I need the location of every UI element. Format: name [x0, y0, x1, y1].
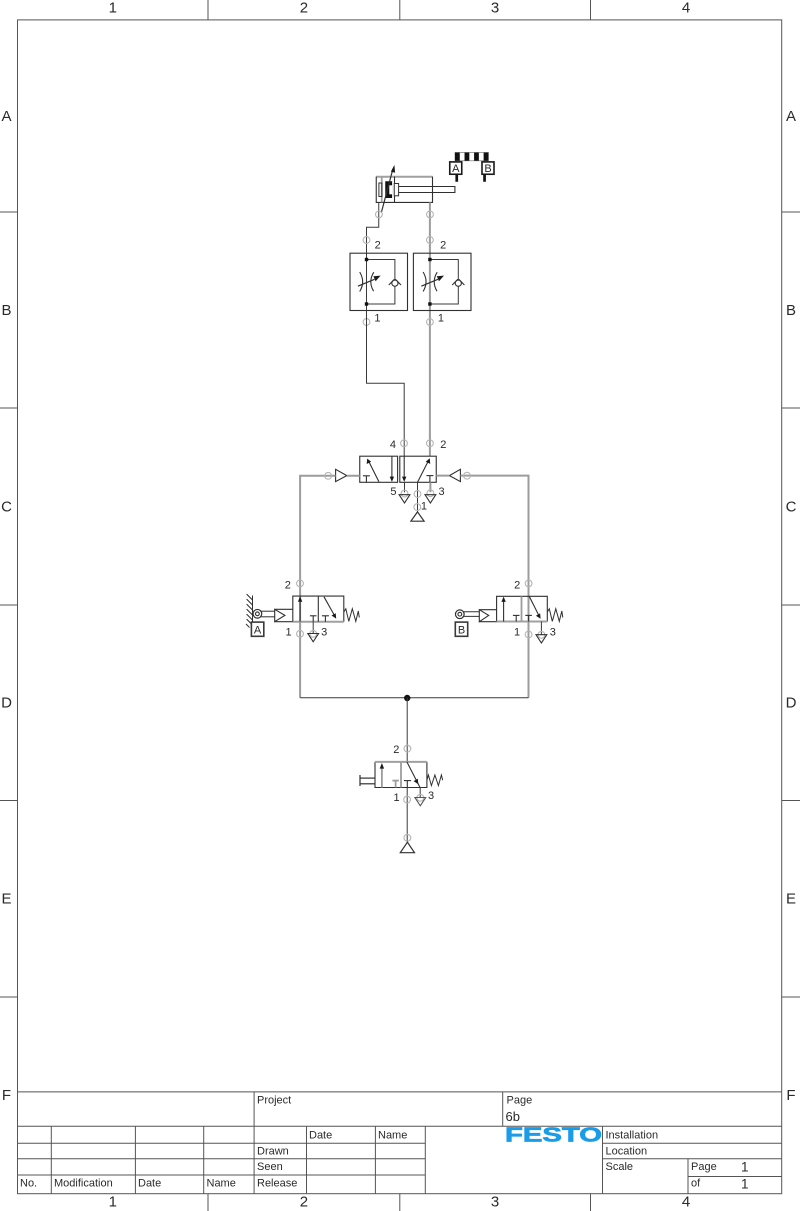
svg-text:2: 2	[514, 579, 520, 591]
flow control 1V2 check branch	[430, 260, 458, 305]
node 1V3 port 1	[414, 491, 421, 498]
node supply below 1V3	[414, 504, 421, 511]
cylinder piston	[385, 181, 398, 198]
1S3 right square flow path 2 to 3	[407, 762, 420, 787]
svg-text:1: 1	[285, 626, 291, 638]
roller valve 1S1 body	[293, 596, 344, 622]
svg-text:2: 2	[285, 579, 291, 591]
1S3 right square blocked port 1	[404, 781, 411, 788]
svg-text:1: 1	[741, 1177, 749, 1192]
flow control 1V1 check branch	[367, 260, 395, 305]
node 1S3 port 2	[404, 745, 411, 752]
1S2 return spring	[547, 609, 563, 622]
throttle arrow 1V2	[421, 276, 444, 287]
svg-text:F: F	[786, 1087, 795, 1104]
1V3 left square flow path 2 to 3	[390, 456, 394, 482]
node flow control 1V1 port 2	[363, 237, 370, 244]
throttle arcs 1V1	[360, 272, 374, 292]
svg-text:1: 1	[741, 1160, 749, 1175]
svg-text:1: 1	[374, 313, 380, 325]
svg-text:E: E	[1, 891, 11, 908]
svg-text:D: D	[1, 695, 12, 712]
1V3 port 3 exhaust stem (grey)	[429, 482, 431, 492]
svg-text:B: B	[458, 625, 465, 637]
svg-text:Seen: Seen	[257, 1161, 283, 1173]
1S1 right square blocked port 1	[322, 616, 329, 622]
svg-text:A: A	[1, 108, 11, 125]
5/2-way valve 1V3 body left square	[360, 456, 398, 482]
svg-text:Date: Date	[309, 1130, 332, 1142]
svg-text:Name: Name	[207, 1178, 236, 1190]
wire supply bus	[300, 697, 528, 699]
1S2 port 3 exhaust stem	[540, 622, 542, 635]
svg-text:6b: 6b	[506, 1109, 520, 1124]
junction 1V2 bottom	[428, 302, 431, 305]
node 1V3 port 5	[401, 490, 408, 497]
node 5/2 port 4	[401, 440, 408, 447]
svg-text:C: C	[786, 499, 797, 516]
1V3 right square flow path 4 to 5	[402, 456, 406, 482]
svg-text:3: 3	[428, 790, 434, 802]
node 1V1 port 1	[363, 319, 370, 326]
svg-text:3: 3	[491, 0, 499, 17]
svg-text:Page: Page	[507, 1095, 533, 1107]
svg-text:Release: Release	[257, 1178, 297, 1190]
1S3 port 3 exhaust stem	[419, 788, 421, 798]
svg-text:1: 1	[109, 1194, 117, 1211]
1S2 roller	[455, 610, 464, 619]
node left pilot	[325, 472, 332, 479]
svg-text:B: B	[786, 302, 796, 319]
1S2 port 3 exhaust triangle	[536, 635, 547, 643]
1S1 left square flow path 1 to 2	[298, 596, 302, 621]
junction 1V2 top	[428, 258, 431, 261]
check valve ball 1V2	[452, 279, 464, 286]
row letters left	[1, 108, 12, 1104]
svg-text:3: 3	[491, 1194, 499, 1211]
junction 1V1 top	[365, 258, 368, 261]
node 1S2 port 1	[525, 631, 532, 638]
frame row ticks right	[782, 212, 800, 997]
node 1S1 port 3	[310, 630, 317, 637]
wire right pilot line (grey)	[436, 476, 528, 597]
1S2 roller lever actuator box	[479, 610, 496, 622]
svg-text:Drawn: Drawn	[257, 1146, 289, 1158]
flow control valve 1V2 box	[413, 253, 471, 310]
svg-text:3: 3	[321, 626, 327, 638]
svg-text:C: C	[1, 499, 12, 516]
compressed air supply source	[400, 842, 414, 853]
wire 1S2 port 1 down (grey)	[528, 622, 530, 698]
wire 1S3 port 1 to supply	[406, 788, 408, 843]
svg-text:Modification: Modification	[54, 1178, 113, 1190]
compressed air supply under 1V3	[411, 512, 424, 521]
roller valve 1S2 body	[497, 596, 548, 621]
wire 1V1 port 1 to 5/2 port 4	[367, 311, 405, 457]
wire cylinder right port to 5/2 valve port 2 (grey)	[429, 202, 431, 456]
svg-text:Location: Location	[606, 1146, 648, 1158]
1S1 roller lever actuator box	[275, 609, 293, 621]
svg-text:No.: No.	[20, 1178, 37, 1190]
node flow control 1V2 port 2	[427, 237, 434, 244]
junction 1V1 bottom	[365, 302, 368, 305]
node cylinder left port	[376, 211, 383, 218]
svg-text:Name: Name	[378, 1130, 407, 1142]
cylinder magnet arrow	[381, 165, 395, 213]
1V3 right pilot triangle	[449, 469, 460, 481]
svg-text:4: 4	[682, 1194, 690, 1211]
node 1V2 port 1	[427, 319, 434, 326]
1V3 left square blocked port 5	[363, 476, 370, 483]
1S3 port 3 exhaust triangle	[415, 798, 426, 806]
1S3 return spring	[427, 775, 443, 786]
svg-text:B: B	[1, 302, 11, 319]
wire cylinder left port to flow control 1V1	[367, 202, 379, 253]
throttle arcs 1V2	[423, 272, 437, 292]
svg-text:5: 5	[390, 486, 396, 498]
svg-text:of: of	[691, 1178, 701, 1190]
svg-text:Installation: Installation	[606, 1130, 659, 1142]
svg-text:2: 2	[440, 240, 446, 252]
node 5/2 port 2	[427, 440, 434, 447]
svg-text:3: 3	[439, 486, 445, 498]
svg-text:Scale: Scale	[606, 1161, 634, 1173]
node 1S2 port 3	[538, 631, 545, 638]
svg-text:FESTO: FESTO	[505, 1124, 602, 1147]
1V3 port 5 exhaust triangle	[399, 495, 410, 503]
ruler label B box	[482, 162, 494, 182]
1S1 roller	[253, 609, 262, 618]
svg-text:A: A	[254, 625, 262, 637]
node above supply source	[404, 834, 411, 841]
svg-text:B: B	[484, 163, 491, 175]
svg-text:2: 2	[300, 1194, 308, 1211]
node valve 1S2 port 2	[525, 580, 532, 587]
svg-text:Date: Date	[138, 1178, 161, 1190]
svg-text:4: 4	[682, 0, 690, 17]
frame column ticks top	[208, 0, 591, 20]
1S1 return spring	[344, 609, 360, 622]
svg-text:1: 1	[514, 626, 520, 638]
node 1S3 port 1	[404, 796, 411, 803]
svg-text:1: 1	[421, 501, 427, 513]
svg-text:D: D	[786, 695, 797, 712]
node 1V3 port 3	[427, 490, 434, 497]
1S2 right square flow path 2 to 3	[529, 597, 540, 619]
1S2 left square blocked port 3	[513, 615, 520, 621]
distance ruler scale	[455, 153, 488, 161]
node right pilot	[464, 472, 471, 479]
1S3 left square flow path 1 to 2 (grey)	[380, 763, 384, 788]
check valve ball 1V1	[389, 279, 401, 286]
svg-text:1: 1	[438, 313, 444, 325]
1S1 port 3 exhaust stem	[312, 622, 314, 634]
node cylinder right port	[427, 211, 434, 218]
1V3 port 5 exhaust stem	[404, 482, 406, 492]
frame row ticks left	[0, 212, 18, 997]
1S1 right square flow path 2 to 3	[324, 597, 336, 619]
svg-text:2: 2	[440, 439, 446, 451]
cylinder 1A (double-acting) body	[376, 177, 432, 203]
column numbers bottom	[109, 1194, 691, 1211]
1S2 roller lever	[463, 612, 480, 617]
svg-text:3: 3	[550, 626, 556, 638]
label box A at 1S1	[251, 622, 263, 637]
node valve 1S1 port 2	[297, 580, 304, 587]
svg-text:E: E	[786, 891, 796, 908]
1S2 left square flow path 1 to 2	[501, 597, 505, 622]
column numbers top	[109, 0, 691, 17]
svg-text:4: 4	[390, 439, 396, 451]
wire 1V3 port 1 to supply	[417, 482, 419, 512]
1V3 left pilot triangle	[336, 469, 347, 481]
svg-text:1: 1	[394, 792, 400, 804]
1V3 right square flow path 1 to 2	[418, 458, 431, 482]
title block labels	[20, 1095, 749, 1192]
node 1S3 port 3	[417, 794, 424, 801]
svg-text:A: A	[452, 163, 460, 175]
svg-text:Project: Project	[257, 1095, 291, 1107]
frame column ticks bottom	[208, 1194, 591, 1211]
wire junction to valve 1S3 port 2	[406, 698, 408, 762]
cylinder piston rod	[399, 187, 455, 193]
svg-text:Page: Page	[691, 1161, 717, 1173]
ruler label A box	[450, 162, 462, 182]
1S3 manual actuator	[360, 775, 375, 786]
svg-text:2: 2	[393, 744, 399, 756]
1S1 roller lever	[260, 611, 274, 617]
5/2-way valve 1V3 body right square	[400, 456, 436, 482]
label box B at 1S2	[455, 622, 467, 637]
flow control 1V1 through line	[366, 253, 368, 310]
1S1 left square blocked port 3	[310, 616, 317, 622]
svg-text:A: A	[786, 108, 796, 125]
1S3 left square blocked port 3 (grey)	[392, 781, 399, 788]
svg-text:1: 1	[109, 0, 117, 17]
svg-text:2: 2	[300, 0, 308, 17]
1V3 port 3 exhaust triangle	[425, 495, 436, 503]
wire 1S1 port 1 down (grey)	[299, 622, 301, 698]
svg-text:F: F	[2, 1087, 11, 1104]
junction supply bus	[404, 695, 410, 701]
flow control valve 1V1 box	[350, 253, 408, 310]
svg-text:2: 2	[375, 240, 381, 252]
manual valve 1S3 body	[375, 762, 427, 788]
1V3 left square flow path 1 to 4	[367, 459, 379, 482]
throttle arrow 1V1	[358, 276, 381, 287]
1S1 wall mount hatching	[246, 594, 253, 627]
1S2 right square blocked port 1	[525, 615, 532, 621]
wire left pilot line (grey)	[300, 476, 360, 596]
title block grid	[18, 1092, 782, 1194]
1S1 port 3 exhaust triangle	[308, 634, 319, 642]
node 1S1 port 1	[297, 630, 304, 637]
row letters right	[786, 108, 797, 1104]
1V3 right square blocked port 3	[426, 476, 433, 483]
